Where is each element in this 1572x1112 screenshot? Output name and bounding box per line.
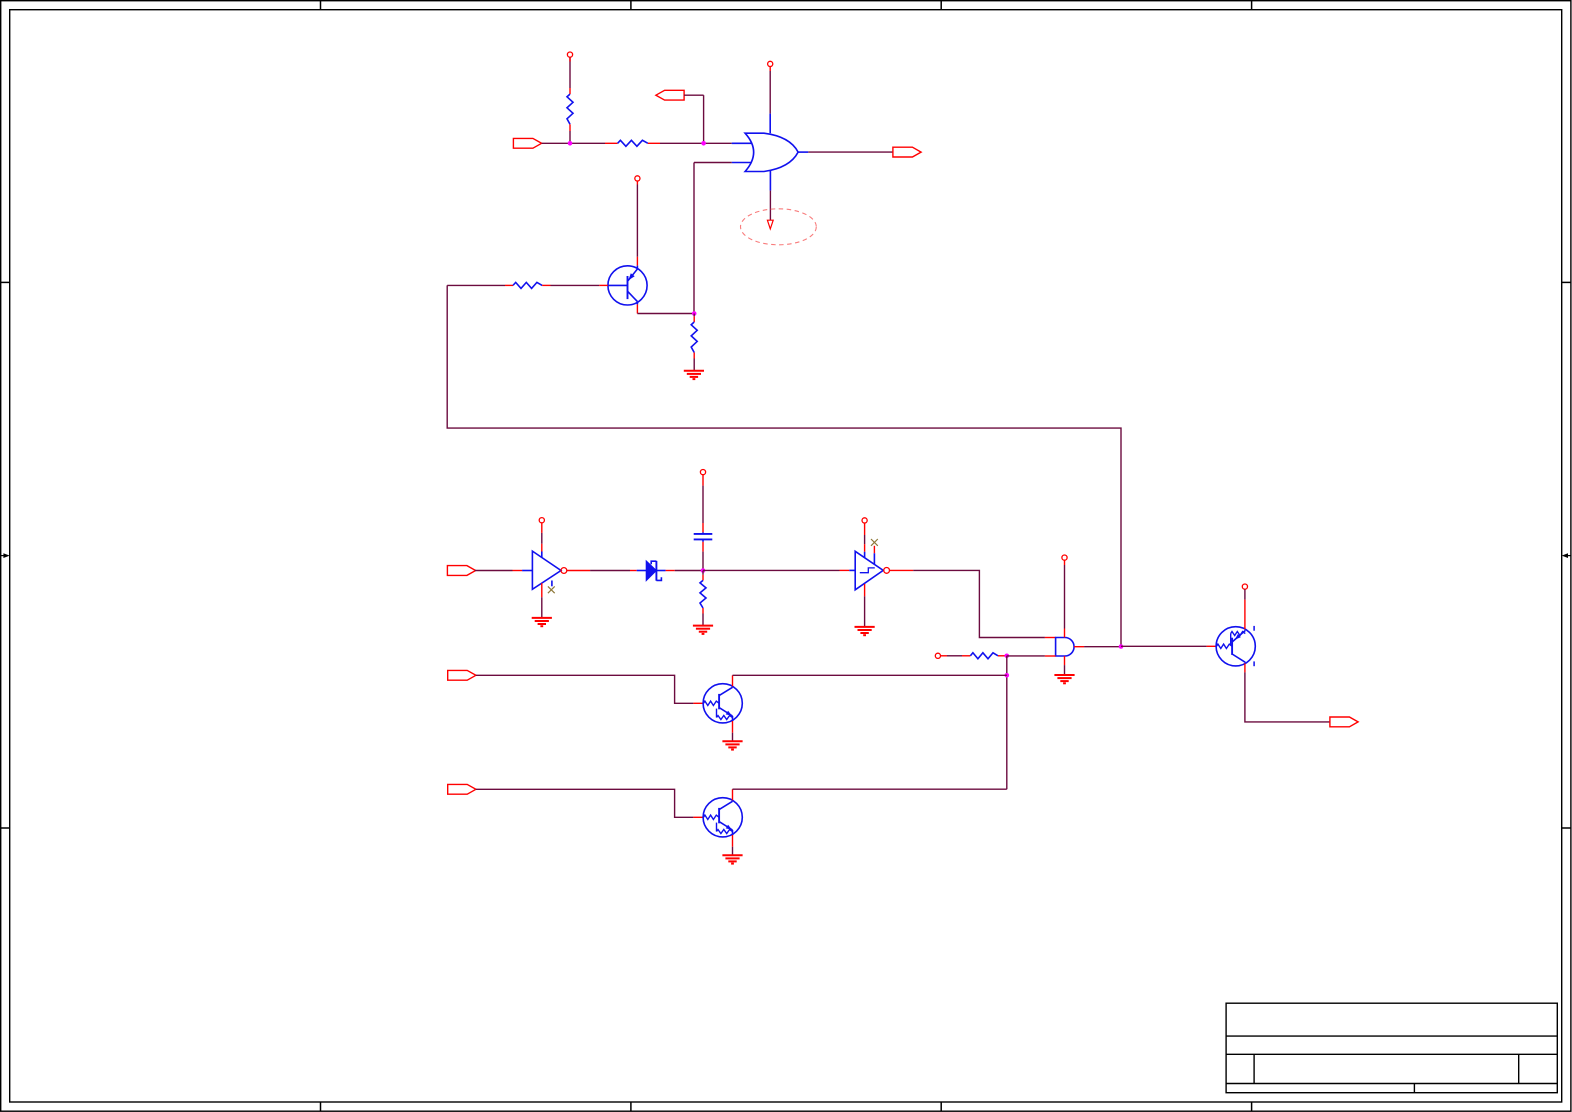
- terminal T3: [539, 518, 544, 523]
- ground G7: [722, 855, 742, 863]
- terminal T8: [1242, 584, 1247, 589]
- wire C1 to node D: [702, 539, 704, 570]
- wire U2 NC pin: [873, 546, 875, 553]
- wire node G to Q5 base: [1121, 645, 1216, 647]
- port P3 input: [447, 566, 475, 576]
- pin marker dashes Q5: [1253, 626, 1255, 666]
- port P6 output: [1330, 717, 1358, 727]
- wire T3 to U1 power pin: [541, 523, 543, 552]
- wire R1 to node A: [569, 124, 571, 143]
- wire feedback loop: [447, 285, 1121, 646]
- port P1 input: [513, 138, 541, 148]
- title block: [1226, 1003, 1557, 1092]
- wire D1 to node D: [666, 570, 703, 572]
- wire T4 to C1: [702, 475, 704, 534]
- or-gate U4: [745, 133, 798, 171]
- no-connect X on U2: [871, 539, 878, 546]
- resistor R4: [691, 322, 697, 353]
- and-gate U3: [1056, 638, 1074, 657]
- wire U2 output to U3 input 1: [890, 570, 1056, 637]
- frame center arrow left: [1, 553, 10, 558]
- ground G2: [532, 618, 552, 626]
- transistor Q1 PNP: [608, 266, 647, 305]
- wire R4 to ground: [693, 353, 695, 371]
- wire Q3 emitter to ground: [732, 721, 734, 741]
- wire U2 ground pin: [864, 584, 866, 627]
- wire R6 to node E: [998, 655, 1007, 657]
- wire P2 to node B: [684, 95, 704, 143]
- wire Q1 emitter to node C: [637, 304, 694, 313]
- DRC marker dashed ellipse: [741, 209, 817, 245]
- wire Q5 collector to P6: [1245, 663, 1330, 722]
- wire OR gate U4 input 2: [694, 163, 752, 314]
- port P2 output: [656, 90, 684, 100]
- wire U4 output to P7: [798, 151, 893, 153]
- buffer U1: [532, 551, 566, 589]
- node B junction: [701, 141, 706, 146]
- terminal T5: [862, 518, 867, 523]
- wire Q3 collector to node F: [733, 675, 1007, 686]
- terminal T1: [567, 52, 572, 57]
- ground G6: [722, 741, 742, 749]
- schmitt buffer U2: [855, 551, 889, 590]
- node A junction: [568, 141, 573, 146]
- transistor Q3 digital NPN: [703, 684, 742, 723]
- wire P3 to U1: [475, 570, 533, 572]
- wire R5 to ground: [702, 608, 704, 625]
- wire R2 to OR gate U4 input 1: [648, 142, 752, 144]
- resistor R5: [700, 580, 706, 608]
- resistor R3: [513, 282, 542, 288]
- ground G5: [1054, 675, 1074, 683]
- node F junction: [1005, 673, 1010, 678]
- terminal T6: [1062, 555, 1067, 560]
- transistor Q5 digital PNP: [1216, 627, 1255, 666]
- wire R3 to Q1 base: [542, 284, 608, 286]
- wire node E down to Q4 collector line: [1006, 656, 1008, 789]
- frame center arrow right: [1562, 553, 1571, 558]
- wire P5 to Q4 base: [476, 789, 703, 817]
- wire P1 to R2: [542, 142, 618, 144]
- no-connect X on U1: [548, 586, 555, 593]
- wire U3 output to node G: [1074, 646, 1121, 648]
- port P5 input: [448, 784, 476, 794]
- port P7 output: [893, 147, 921, 157]
- ground G3: [693, 626, 713, 634]
- terminal T4: [700, 470, 705, 475]
- resistor R1: [567, 94, 573, 124]
- wire T6 to U3 power pin: [1064, 560, 1066, 637]
- resistor R6: [970, 653, 998, 659]
- wire T5 to U2 power pin: [864, 523, 866, 552]
- wire T1 to R1: [569, 57, 571, 94]
- wire T8 to Q5 emitter: [1244, 589, 1246, 629]
- wire node D to R5: [702, 571, 704, 581]
- ground G1: [684, 371, 704, 379]
- schottky diode D1: [637, 561, 666, 581]
- wire node D to U2: [703, 569, 855, 571]
- node C junction: [692, 311, 697, 316]
- node E junction: [1005, 654, 1010, 659]
- wire U3 ground pin: [1064, 656, 1066, 675]
- wire Q4 collector line: [733, 789, 1007, 800]
- node G junction: [1119, 644, 1124, 649]
- transistor Q4 digital NPN: [703, 798, 742, 837]
- capacitor C1: [694, 534, 713, 540]
- port P4 input: [448, 670, 476, 680]
- open arrowhead on dangling net: [767, 220, 773, 229]
- wire P4 to Q3 base: [476, 675, 703, 703]
- node D junction: [701, 568, 706, 573]
- wire node E to U3 input 2: [1007, 655, 1056, 657]
- wire U1 ground pin: [541, 583, 543, 618]
- wire T2 to Q1 collector: [636, 181, 638, 266]
- wire U1 output to D1: [567, 570, 637, 572]
- wire U4 ground pin dangling: [769, 171, 771, 220]
- ground G4: [855, 627, 875, 635]
- wire T7 to R6: [941, 655, 971, 657]
- terminal T9 on U4 power pin: [768, 61, 773, 66]
- terminal T7: [935, 653, 940, 658]
- wire Q4 emitter to ground: [732, 835, 734, 855]
- terminal T2: [635, 176, 640, 181]
- resistor R2: [618, 140, 648, 146]
- wire R3 left corner: [447, 284, 513, 286]
- wire U4 power pin: [769, 67, 771, 134]
- wire node C to R4: [693, 314, 695, 323]
